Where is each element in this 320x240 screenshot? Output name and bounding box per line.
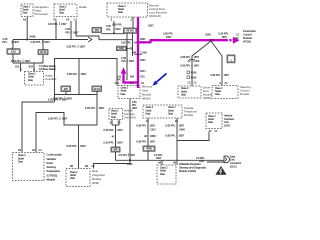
module Rear Integration Module dashed box xyxy=(66,169,90,187)
wire tee down to rear integration module xyxy=(78,125,80,169)
svg-text:1807: 1807 xyxy=(130,154,136,157)
svg-text:Class 2: Class 2 xyxy=(118,6,126,8)
svg-text:Module: Module xyxy=(184,113,194,117)
svg-text:B10: B10 xyxy=(130,76,135,78)
svg-text:Powertrain: Powertrain xyxy=(243,29,256,33)
splice S303 xyxy=(129,159,131,161)
wire from 4P5B connector down to bottom bus xyxy=(147,151,149,160)
svg-text:(CVRSS): (CVRSS) xyxy=(47,173,58,177)
module Vehicle Interface Unit dashed box xyxy=(109,109,123,120)
svg-text:Data: Data xyxy=(118,11,124,14)
svg-text:Serial: Serial xyxy=(118,8,124,11)
in-line connector 4P5 top xyxy=(92,27,102,32)
svg-text:Radio: Radio xyxy=(79,5,87,9)
svg-text:S217: S217 xyxy=(140,70,146,73)
svg-text:0.35 PPL: 0.35 PPL xyxy=(48,97,59,101)
wire from Radio pin F6 down xyxy=(70,21,72,40)
svg-text:0.35: 0.35 xyxy=(132,102,137,104)
wire bus through S436 xyxy=(13,39,88,41)
svg-text:Sensing: Sensing xyxy=(47,165,57,169)
wire drop to amplifier pin B12 xyxy=(33,63,35,72)
svg-text:Data: Data xyxy=(181,93,187,96)
svg-text:4P5: 4P5 xyxy=(64,89,69,91)
wire from Radio pin C1 around connector to C209 xyxy=(76,21,133,40)
svg-text:Class 2: Class 2 xyxy=(215,88,223,90)
blue arrow pointing at memory seat module connector xyxy=(152,74,166,86)
svg-text:PPL: PPL xyxy=(106,28,111,31)
wire drop to SDM pin A4 xyxy=(161,160,163,165)
svg-text:Unit: Unit xyxy=(224,120,229,124)
wire from RIM pin C2 up to splice S303 xyxy=(94,160,131,168)
svg-text:Serial: Serial xyxy=(28,76,34,79)
svg-text:0.35 PPL: 0.35 PPL xyxy=(66,45,77,48)
svg-text:1807: 1807 xyxy=(80,45,86,48)
svg-text:Inflatable Restraint: Inflatable Restraint xyxy=(179,162,201,166)
module Inflatable Restraint SDM dashed box xyxy=(157,165,176,184)
svg-text:0.35 PPL: 0.35 PPL xyxy=(112,24,123,27)
svg-text:PPL: PPL xyxy=(132,105,137,107)
svg-text:1807: 1807 xyxy=(166,36,172,39)
warning triangle with lightning bolt xyxy=(215,166,226,175)
splice reference box with arrow xyxy=(117,46,127,50)
svg-text:Serial: Serial xyxy=(160,170,166,173)
svg-text:1807: 1807 xyxy=(67,96,73,100)
svg-text:1807: 1807 xyxy=(99,106,105,110)
svg-text:Data: Data xyxy=(23,12,29,15)
svg-text:Serial: Serial xyxy=(181,90,187,93)
svg-text:Processor: Processor xyxy=(35,12,49,16)
second conductor of DLC pair xyxy=(207,161,224,163)
svg-text:Suspension: Suspension xyxy=(47,169,61,173)
svg-text:Serial: Serial xyxy=(208,118,214,121)
svg-text:1807: 1807 xyxy=(62,97,68,101)
svg-text:0.35 PPL: 0.35 PPL xyxy=(103,140,114,144)
svg-text:C14: C14 xyxy=(130,83,135,85)
wire from connector down to memory seat module pin xyxy=(126,33,128,80)
svg-text:0.35 PPL: 0.35 PPL xyxy=(180,64,191,67)
svg-text:Vehicle: Vehicle xyxy=(224,113,233,117)
svg-text:1807: 1807 xyxy=(150,125,156,128)
svg-text:(PCM): (PCM) xyxy=(243,39,251,43)
wire tee down to mid bus xyxy=(78,59,80,95)
second grommet on DDM wire xyxy=(187,76,190,79)
svg-text:D345: D345 xyxy=(150,135,156,138)
svg-text:Serial: Serial xyxy=(23,8,29,11)
svg-text:1807: 1807 xyxy=(179,125,185,128)
svg-text:(RIM): (RIM) xyxy=(92,181,99,185)
wire between top connectors xyxy=(102,33,125,35)
svg-text:(RCDLR): (RCDLR) xyxy=(149,14,161,18)
svg-text:Class 2: Class 2 xyxy=(121,88,129,90)
svg-text:1807: 1807 xyxy=(117,128,123,132)
svg-text:Module: Module xyxy=(47,178,56,182)
svg-text:0.35 PPL: 0.35 PPL xyxy=(180,56,191,59)
wire left leg down from bracket xyxy=(54,59,56,103)
wire from right VIU down to cellular wire xyxy=(177,132,209,140)
wire down from VIU to connector xyxy=(115,125,117,147)
svg-text:(DLC): (DLC) xyxy=(230,165,237,168)
svg-text:1807: 1807 xyxy=(194,64,200,67)
svg-text:Serial: Serial xyxy=(121,90,127,93)
svg-text:0.5 PPL: 0.5 PPL xyxy=(119,154,128,157)
svg-text:Class 2: Class 2 xyxy=(111,111,119,113)
svg-text:Data: Data xyxy=(208,121,214,124)
svg-text:S420: S420 xyxy=(119,48,125,50)
svg-text:Data: Data xyxy=(70,177,76,180)
svg-text:Data: Data xyxy=(168,112,174,115)
wire from connector down to bottom bus xyxy=(115,152,117,160)
svg-text:0.35 PPL: 0.35 PPL xyxy=(48,117,59,121)
module Radio dashed box with Class 2 Serial Data xyxy=(54,4,77,17)
svg-text:1807: 1807 xyxy=(156,157,162,160)
wire left drop to in-line connector xyxy=(12,40,13,49)
svg-text:S260: S260 xyxy=(205,33,211,36)
svg-text:Data: Data xyxy=(146,112,152,115)
in-line connector box on SCM wire xyxy=(227,55,235,63)
in-line connector C2 right xyxy=(38,50,48,55)
svg-text:Data: Data xyxy=(121,93,127,96)
wire right vertical down from mid bus xyxy=(96,95,98,126)
wire from connector to pin B4 of C209 xyxy=(132,33,134,56)
svg-text:(VIU): (VIU) xyxy=(224,124,230,128)
svg-text:A9 3A2: A9 3A2 xyxy=(126,30,134,33)
wire drop to amplifier pin D11 xyxy=(20,63,22,72)
module RCDLR dashed box xyxy=(107,3,148,17)
wire right drop to in-line connector xyxy=(42,40,44,50)
svg-text:Serial: Serial xyxy=(168,109,174,112)
svg-text:Serial: Serial xyxy=(18,157,24,160)
svg-text:Class 2: Class 2 xyxy=(160,168,168,170)
connector C209 tick on magenta wire xyxy=(134,53,141,55)
wire from RCDLR pin 2 down xyxy=(132,17,134,28)
in-line connector A9 3A middle xyxy=(92,86,102,91)
svg-text:Data: Data xyxy=(160,173,166,176)
svg-text:0.35 PPL: 0.35 PPL xyxy=(66,144,77,148)
wires from VIU pins down xyxy=(111,120,113,126)
in-line connector IP 3A2 xyxy=(124,28,137,33)
magenta up arrow at memory seat module xyxy=(121,67,127,73)
svg-text:0.35 PPL: 0.35 PPL xyxy=(219,33,230,36)
module Steering Column Module dashed box xyxy=(212,86,238,99)
svg-text:P100: P100 xyxy=(191,72,197,75)
module CVRSS dashed box xyxy=(13,153,45,181)
svg-text:0.35 PPL: 0.35 PPL xyxy=(163,33,174,36)
svg-text:1807: 1807 xyxy=(199,160,205,163)
svg-text:C312: C312 xyxy=(150,129,156,132)
in-line connector 4P5 middle xyxy=(61,86,71,91)
svg-text:C209: C209 xyxy=(141,51,148,54)
wire outer loop horizontal to far left xyxy=(22,102,55,153)
svg-text:PPL: PPL xyxy=(65,31,70,34)
wire bottom bracket horizontal xyxy=(36,113,97,153)
svg-text:A9 3A: A9 3A xyxy=(94,88,101,91)
svg-text:1807: 1807 xyxy=(44,40,50,44)
svg-text:Serial: Serial xyxy=(215,90,221,93)
svg-text:1807: 1807 xyxy=(62,117,68,121)
svg-text:C209: C209 xyxy=(194,60,200,63)
wire stub below right middle connector xyxy=(96,91,98,94)
svg-text:0.35 PPL: 0.35 PPL xyxy=(103,128,114,132)
svg-text:Class 2: Class 2 xyxy=(18,155,26,157)
wire bracket horizontal from radio area xyxy=(55,59,118,86)
svg-text:0.35 PPL: 0.35 PPL xyxy=(165,125,176,128)
svg-text:4P5: 4P5 xyxy=(95,30,100,32)
wire diagonal from S260 to driver door module xyxy=(192,41,211,86)
wire diagonal from S260 to steering column module xyxy=(211,41,222,86)
wire from RCDLR pin 3 down to junction xyxy=(113,21,115,34)
svg-text:4P5B: 4P5B xyxy=(146,149,152,151)
svg-text:Serial: Serial xyxy=(70,174,76,177)
svg-text:Control: Control xyxy=(243,32,252,36)
white chevrons on magenta wire xyxy=(227,38,230,43)
svg-text:1807: 1807 xyxy=(129,60,135,63)
magenta branch wire to PCM xyxy=(138,40,234,42)
svg-text:Serial: Serial xyxy=(146,109,152,112)
svg-text:1807: 1807 xyxy=(61,23,67,26)
svg-text:Class 2: Class 2 xyxy=(208,116,216,118)
grommet P100 on DDM wire xyxy=(187,71,190,74)
svg-text:Class 2: Class 2 xyxy=(168,107,176,109)
wire from F2 down to connector xyxy=(147,118,149,146)
svg-text:0.35 PPL: 0.35 PPL xyxy=(210,74,221,77)
svg-text:Data: Data xyxy=(111,116,117,119)
svg-text:0.35 PPL: 0.35 PPL xyxy=(121,41,132,44)
svg-text:1807: 1807 xyxy=(150,141,156,144)
svg-text:1807: 1807 xyxy=(117,140,123,144)
svg-text:Data: Data xyxy=(59,12,65,15)
svg-text:1807: 1807 xyxy=(224,74,230,77)
svg-text:1807: 1807 xyxy=(148,25,154,28)
svg-text:Sensing and Diagnostic: Sensing and Diagnostic xyxy=(179,166,207,170)
in-line connector on VIU wire xyxy=(111,147,120,152)
svg-text:0.35 PPL: 0.35 PPL xyxy=(48,23,59,26)
svg-text:C346: C346 xyxy=(179,129,185,132)
wire stub below left middle connector xyxy=(65,91,67,94)
svg-text:PPL: PPL xyxy=(3,41,8,44)
svg-text:C1 (Base Radio): C1 (Base Radio) xyxy=(39,66,56,68)
module Memory Seat Module dashed box xyxy=(118,86,140,99)
bottom serial data bus to data link connector xyxy=(116,159,225,161)
svg-text:0.35 PPL: 0.35 PPL xyxy=(67,72,78,76)
module Cellular Telephone Module dashed box xyxy=(143,105,182,118)
in-line connector 4P5B on F2 wire xyxy=(143,146,155,151)
svg-text:Data: Data xyxy=(18,160,24,163)
svg-text:1807: 1807 xyxy=(179,134,185,137)
svg-text:Class 2: Class 2 xyxy=(23,6,31,8)
bus continuation chevron xyxy=(88,37,92,42)
svg-text:D11: D11 xyxy=(15,65,20,68)
svg-text:0.35 PPL: 0.35 PPL xyxy=(136,125,147,128)
svg-text:Continuously: Continuously xyxy=(47,153,63,157)
svg-text:(DDM): (DDM) xyxy=(203,96,211,100)
svg-text:Interface: Interface xyxy=(224,117,235,121)
svg-text:Data: Data xyxy=(28,79,34,82)
svg-text:1807: 1807 xyxy=(132,108,138,110)
svg-text:1807: 1807 xyxy=(81,72,87,76)
svg-text:1807: 1807 xyxy=(115,28,121,31)
svg-text:Module: Module xyxy=(243,36,252,40)
svg-text:S303: S303 xyxy=(127,163,133,166)
svg-text:B12: B12 xyxy=(29,65,34,68)
svg-text:C3 (Bose Radio): C3 (Bose Radio) xyxy=(39,69,56,71)
svg-text:Class 2: Class 2 xyxy=(146,107,154,109)
svg-text:S436: S436 xyxy=(30,36,36,39)
wire bus to audio amplifier pins xyxy=(13,62,43,64)
splice S260 xyxy=(210,39,213,42)
svg-text:(MSM): (MSM) xyxy=(142,96,150,100)
wire below right connector xyxy=(42,55,44,63)
svg-text:0.35 PPL: 0.35 PPL xyxy=(165,134,176,137)
wire horizontal mid bus xyxy=(55,94,98,96)
module Audio Amplifier dashed box with Class 2 Serial Data xyxy=(25,72,44,86)
svg-text:Class 2: Class 2 xyxy=(28,74,36,76)
svg-text:1807: 1807 xyxy=(140,59,146,62)
svg-text:0.35 PPL: 0.35 PPL xyxy=(136,141,147,144)
svg-text:1807: 1807 xyxy=(14,41,20,44)
wire from pin A3 down to splice S436 xyxy=(26,17,28,40)
svg-text:D15: D15 xyxy=(141,76,146,78)
svg-text:Class 2: Class 2 xyxy=(59,6,67,8)
svg-text:Class 2: Class 2 xyxy=(181,88,189,90)
magenta highlighted wire from RCDLR down to memory seat module xyxy=(137,17,139,88)
magenta link wire to main magenta run xyxy=(122,81,138,83)
svg-text:Module: Module xyxy=(240,92,250,96)
connector tick A2 C209 xyxy=(189,59,195,61)
splice S436 xyxy=(26,38,28,40)
svg-text:Data: Data xyxy=(215,93,221,96)
svg-text:Serial: Serial xyxy=(111,113,117,116)
svg-text:A9 34: A9 34 xyxy=(40,51,47,54)
svg-text:Road: Road xyxy=(47,161,54,165)
svg-text:Variable: Variable xyxy=(47,157,57,161)
svg-text:0.35 PPL: 0.35 PPL xyxy=(30,40,41,44)
in-line connector C2 left xyxy=(7,49,20,54)
svg-text:0.35 PPL: 0.35 PPL xyxy=(85,106,96,110)
svg-text:1807: 1807 xyxy=(194,56,200,59)
svg-text:P100: P100 xyxy=(191,77,197,80)
svg-text:4P5: 4P5 xyxy=(113,150,118,152)
svg-text:A201: A201 xyxy=(11,51,17,54)
wire from E2 down to SDM xyxy=(176,118,178,165)
svg-text:Class 2: Class 2 xyxy=(70,172,78,174)
module Driver Door Module dashed box xyxy=(178,86,201,98)
junction dot on pin 3 wire xyxy=(113,32,115,34)
wire from memory seat module down to splice S303 xyxy=(129,99,131,161)
magenta arrowhead at PCM pin xyxy=(233,37,240,44)
svg-text:1807: 1807 xyxy=(80,144,86,148)
module Navigation Data Processor dashed box with Class 2 Serial Data xyxy=(21,4,33,17)
svg-text:Module (SDM): Module (SDM) xyxy=(179,169,196,173)
svg-text:Serial: Serial xyxy=(59,8,65,11)
svg-text:1807: 1807 xyxy=(222,36,228,39)
wire from Radio pin E6 down to bus xyxy=(55,21,57,40)
data link connector symbol xyxy=(224,156,229,163)
module Vehicle Interface Unit right dashed box xyxy=(206,113,222,129)
wire below left connector xyxy=(12,54,14,63)
svg-text:PPL: PPL xyxy=(121,60,126,63)
